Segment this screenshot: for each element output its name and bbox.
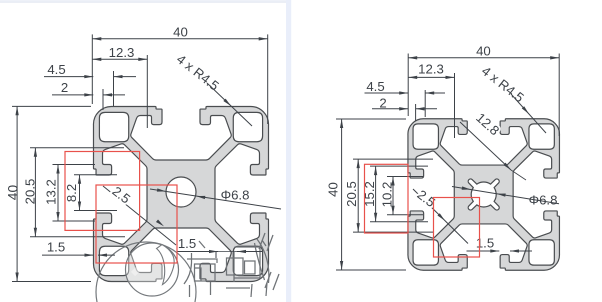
svg-text:10.2: 10.2 — [380, 182, 395, 208]
label dia 6.8 with leader (right drawing) — [452, 187, 559, 204]
label 12.8 with leader (right drawing) — [460, 122, 511, 170]
svg-text:12.3: 12.3 — [418, 62, 444, 77]
svg-text:Φ6.8: Φ6.8 — [529, 193, 558, 208]
watermark white band — [133, 248, 160, 274]
dim 15.2 (right drawing) — [370, 165, 428, 167]
svg-text:20.5: 20.5 — [344, 181, 359, 207]
svg-text:20.5: 20.5 — [22, 179, 37, 205]
left profile body (40x40 extrusion cross-section) — [93, 106, 268, 281]
dim 40 left (left drawing) — [12, 105, 91, 107]
dim 2 (right drawing) — [415, 104, 417, 121]
svg-text:Φ6.8: Φ6.8 — [221, 188, 250, 203]
dim 40 top (right drawing) — [407, 54, 409, 117]
dim 12.3 (left drawing) — [146, 55, 148, 128]
svg-text:40: 40 — [173, 24, 188, 39]
svg-text:12.3: 12.3 — [109, 45, 135, 60]
top hairline band — [0, 0, 287, 2]
right profile body (40x40 extrusion, X-core variant) — [408, 119, 560, 271]
svg-text:40: 40 — [5, 185, 20, 201]
dim 10.2 (right drawing) — [387, 176, 423, 178]
dim 20.5 (right drawing) — [353, 158, 433, 160]
svg-text:8.2: 8.2 — [64, 184, 79, 202]
svg-text:1.5: 1.5 — [476, 235, 494, 250]
dim 20.5 (left drawing) — [30, 147, 124, 149]
dim 40 left (right drawing) — [336, 118, 406, 120]
dim 1.5 (right drawing) — [467, 250, 500, 252]
label dia 6.8 with leader (left drawing) — [150, 189, 281, 209]
label 2.5 with leader (left drawing) — [103, 186, 176, 245]
svg-text:4.5: 4.5 — [366, 79, 384, 94]
dim 1.5 bottom-left (left drawing) — [42, 254, 94, 256]
dim 13.2 (left drawing) — [53, 164, 96, 166]
svg-text:1.5: 1.5 — [178, 236, 196, 251]
red highlight rect 2 (left drawing) — [96, 185, 177, 263]
dim 2 (left drawing) — [102, 89, 104, 110]
dim 4.5 (left drawing) — [113, 71, 115, 106]
svg-text:40: 40 — [326, 182, 341, 197]
watermark medium circle with white wash — [126, 243, 179, 296]
dim 40 top (left drawing) — [91, 34, 93, 104]
dim 4.5 (right drawing) — [424, 90, 426, 117]
dim 8.2 (left drawing) — [74, 174, 117, 176]
vertical seam band between the two images — [286, 0, 291, 302]
svg-text:40: 40 — [476, 43, 491, 58]
watermark crescent swoosh — [157, 245, 175, 285]
svg-text:4.5: 4.5 — [47, 62, 65, 77]
red highlight rect B (right drawing) — [434, 198, 480, 258]
dim 1.5 bottom-center (left drawing) — [178, 251, 219, 253]
watermark big circle — [96, 242, 196, 302]
dim 12.3 (right drawing) — [454, 73, 456, 138]
svg-text:13.2: 13.2 — [44, 179, 59, 205]
red highlight rect 1 (left drawing) — [65, 152, 140, 231]
svg-text:1.5: 1.5 — [47, 240, 65, 255]
red highlight rect A (right drawing) — [365, 164, 409, 233]
label 2.5 with leader (right drawing) — [413, 189, 468, 244]
svg-text:2: 2 — [379, 96, 386, 111]
watermark characters — [184, 233, 279, 297]
svg-text:2: 2 — [61, 80, 68, 95]
